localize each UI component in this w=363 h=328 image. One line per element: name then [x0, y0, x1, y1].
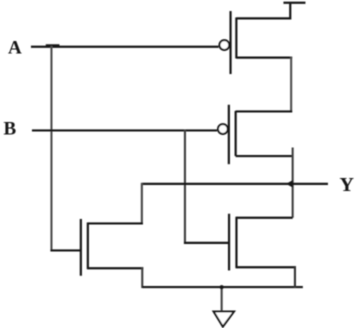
svg-text:B: B: [3, 118, 16, 139]
svg-text:A: A: [8, 37, 22, 58]
svg-text:Y: Y: [339, 174, 354, 196]
